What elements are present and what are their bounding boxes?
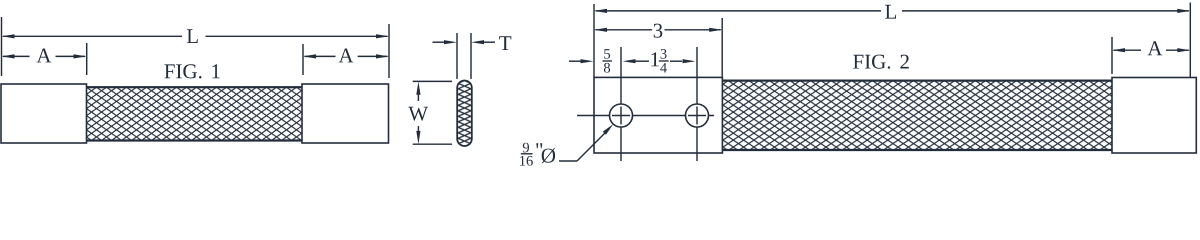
tick for A left [86, 43, 88, 75]
braid (mesh sleeve) FIG.2 [723, 80, 1112, 152]
W extension lines [413, 80, 452, 82]
hole extension line left [620, 47, 622, 161]
left end block FIG.1 [1, 84, 87, 143]
3 dimension line FIG.2 [596, 29, 653, 31]
W dimension arrows [417, 94, 419, 101]
T extension lines [456, 33, 458, 79]
stadium cross-section [457, 81, 472, 147]
A dimension right FIG.1 [305, 55, 336, 57]
fraction 16 denominator [520, 156, 533, 166]
hole extension line right [696, 47, 698, 161]
right end block FIG.2 [1112, 78, 1196, 154]
5/8 dimension arrow [569, 60, 581, 62]
1 3/4 dimension line [635, 60, 649, 62]
braid bottom boundary [87, 139, 303, 141]
braid top boundary [723, 79, 1112, 81]
braid (mesh sleeve) FIG.1 [87, 86, 303, 141]
label A left FIG.1 [37, 49, 52, 63]
braid bottom boundary [723, 149, 1112, 151]
title FIG. 1 text [164, 64, 201, 78]
tick for A right [302, 44, 304, 75]
title FIG. 2 text [853, 55, 890, 69]
fraction 3 numerator [661, 49, 667, 59]
tick for A FIG.2 [1111, 37, 1113, 74]
right extension line [388, 24, 390, 78]
fraction 9 numerator [523, 143, 529, 153]
left extension line [1, 17, 3, 76]
title FIG. 2 number [900, 55, 908, 69]
inch mark [536, 143, 542, 148]
label W [408, 107, 428, 121]
fraction bar 9/16 [521, 153, 533, 155]
title FIG. 1 number [212, 64, 219, 78]
fraction 4 denominator [660, 63, 667, 73]
fraction 5 numerator [604, 49, 610, 59]
diameter symbol [542, 148, 555, 163]
label T [499, 36, 511, 50]
fraction bar 3/4 [659, 60, 669, 62]
hole center line [577, 115, 714, 117]
L dimension line FIG.1 [3, 35, 182, 37]
leader line for hole callout [559, 160, 577, 162]
label L FIG.1 [187, 29, 198, 43]
extension line for 3 dim [721, 18, 723, 77]
label L FIG.2 [885, 5, 896, 19]
label 1 of 1 3/4 [651, 52, 658, 66]
right end block FIG.1 [302, 84, 389, 143]
left extension line FIG.2 [593, 4, 595, 77]
label 3 dim [654, 24, 663, 38]
braid top boundary [87, 86, 303, 88]
A dimension FIG.2 [1114, 49, 1142, 51]
hole left [610, 104, 633, 127]
right extension line FIG.2 [1189, 3, 1191, 78]
L dimension line FIG.2 [596, 10, 882, 12]
T dimension arrows [433, 41, 446, 43]
A dimension left FIG.1 [3, 55, 30, 57]
label A FIG.2 [1148, 41, 1163, 55]
label A right FIG.1 [339, 49, 354, 63]
fraction bar 5/8 [603, 60, 613, 62]
left lug block FIG.2 [594, 77, 722, 153]
hole right [686, 104, 709, 127]
fraction 8 denominator [604, 63, 610, 73]
